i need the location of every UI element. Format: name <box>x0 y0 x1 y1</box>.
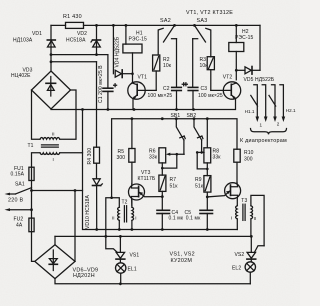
svg-text:РЭС-15: РЭС-15 <box>235 35 253 41</box>
svg-text:R2: R2 <box>163 57 170 63</box>
svg-text:100 мк×25: 100 мк×25 <box>198 93 223 99</box>
svg-text:T3: T3 <box>241 198 247 204</box>
transistor VT3 unijunction <box>129 170 163 206</box>
wire mains arrow 2 <box>5 208 33 211</box>
capacitor C3 <box>184 83 222 110</box>
svg-text:VS2: VS2 <box>235 252 245 258</box>
svg-text:SA3: SA3 <box>197 18 208 24</box>
diode VD5 <box>236 67 275 84</box>
svg-text:КУ202М: КУ202М <box>171 258 193 264</box>
svg-text:0.1 мк: 0.1 мк <box>169 216 184 222</box>
switch SA1 <box>5 181 32 195</box>
svg-text:Н1.1: Н1.1 <box>245 109 255 114</box>
svg-text:33к: 33к <box>213 154 222 160</box>
svg-text:Н2.1: Н2.1 <box>286 108 296 113</box>
brace to projectors <box>251 129 287 135</box>
resistor R1 <box>51 14 84 29</box>
svg-text:R10: R10 <box>244 150 254 156</box>
wire bridge2 right to SA1 line <box>74 191 76 262</box>
svg-text:VS1: VS1 <box>130 252 140 258</box>
resistor R10 <box>234 149 254 182</box>
thyristor VS2 <box>235 236 265 261</box>
node junction dots on top bus <box>95 24 238 27</box>
svg-text:VD1: VD1 <box>32 31 42 37</box>
svg-text:VT2: VT2 <box>223 74 233 80</box>
svg-text:VD10 НС518А: VD10 НС518А <box>85 195 91 229</box>
svg-text:4А: 4А <box>16 222 23 228</box>
lamp EL2 <box>232 262 256 284</box>
svg-text:КТ117Б: КТ117Б <box>138 176 156 182</box>
capacitor C1 <box>98 55 117 110</box>
svg-text:РЭС-15: РЭС-15 <box>129 36 147 42</box>
transformer T2 <box>106 196 137 236</box>
relay H1 <box>123 25 147 82</box>
svg-text:II: II <box>52 131 55 136</box>
svg-text:220 В: 220 В <box>8 197 23 203</box>
wire bus2 <box>55 235 253 238</box>
svg-text:VD4 НД522Б: VD4 НД522Б <box>115 36 121 67</box>
resistor R5 <box>117 119 136 184</box>
transistor VT4 unijunction <box>207 182 240 205</box>
relay H2 <box>229 25 254 79</box>
svg-text:51к: 51к <box>170 183 179 189</box>
svg-text:100 мк×25: 100 мк×25 <box>148 93 173 99</box>
fuse FU2 <box>14 191 35 232</box>
svg-text:II: II <box>112 215 115 220</box>
svg-text:10к: 10к <box>163 63 172 69</box>
svg-text:0.15А: 0.15А <box>11 172 25 178</box>
pushbutton SB2 <box>187 113 203 152</box>
svg-text:К диапроекторам: К диапроекторам <box>240 138 287 144</box>
thyristor VS1 <box>106 236 140 262</box>
transistor VT2 <box>211 74 241 109</box>
wire H2 right branch <box>259 25 261 70</box>
svg-text:33к: 33к <box>149 154 158 160</box>
svg-text:SB2: SB2 <box>187 113 197 119</box>
svg-text:300: 300 <box>117 155 126 161</box>
svg-text:Т1: Т1 <box>28 143 34 149</box>
svg-text:II: II <box>254 216 257 221</box>
svg-text:НД202Н: НД202Н <box>73 273 95 279</box>
svg-text:R4 300: R4 300 <box>87 148 93 165</box>
wire node row y57 <box>50 53 108 63</box>
wire line1 common rail <box>51 108 235 111</box>
svg-text:I: I <box>53 157 54 162</box>
transformer T3 <box>231 195 264 245</box>
zener VD10 <box>85 179 102 230</box>
svg-text:SB1: SB1 <box>171 113 181 119</box>
bridge rectifier VD6-VD9 <box>35 245 98 280</box>
svg-text:I: I <box>135 215 136 220</box>
svg-text:51к: 51к <box>195 183 204 189</box>
svg-text:НС518А: НС518А <box>66 38 86 44</box>
svg-text:T2: T2 <box>122 200 128 206</box>
transistor VT1 <box>128 74 156 109</box>
diode VD1 <box>13 31 55 47</box>
svg-text:1: 1 <box>260 122 263 127</box>
svg-text:R7: R7 <box>170 177 177 183</box>
svg-text:EL1: EL1 <box>128 266 137 272</box>
svg-text:VD2: VD2 <box>77 31 87 37</box>
svg-text:0.1 мк: 0.1 мк <box>186 216 201 222</box>
svg-text:SA2: SA2 <box>160 18 171 24</box>
resistor R8 <box>196 119 221 176</box>
contacts H2.1 <box>269 85 296 127</box>
transformer T1 <box>28 90 83 167</box>
svg-text:C3: C3 <box>201 86 208 92</box>
diode VD4 <box>113 25 133 77</box>
resistor R6 <box>149 148 184 175</box>
capacitor C2 <box>148 83 186 110</box>
resistor R7 <box>159 175 178 210</box>
svg-text:2: 2 <box>277 121 280 126</box>
switch SA3 <box>193 18 211 88</box>
wire VD1 branch <box>50 25 52 71</box>
wire bus1 <box>83 110 238 231</box>
svg-text:SA1: SA1 <box>15 181 25 187</box>
pushbutton SB1 <box>171 113 186 154</box>
lamp EL1 <box>116 263 137 284</box>
svg-text:R1 430: R1 430 <box>63 14 82 20</box>
wire line2 supply rail <box>112 117 237 197</box>
svg-text:R3: R3 <box>200 57 207 63</box>
wire bridge2 top to bus2 <box>54 236 56 244</box>
svg-text:R9: R9 <box>195 177 202 183</box>
label VS1 VS2 type <box>170 252 195 265</box>
wire SA1 to T1 branch <box>30 189 82 192</box>
svg-text:С1 200 мк×25 В: С1 200 мк×25 В <box>98 65 104 103</box>
svg-text:VS1, VS2: VS1, VS2 <box>170 252 195 258</box>
svg-text:300: 300 <box>244 156 253 162</box>
wire FU2 to bridge <box>32 232 35 262</box>
svg-text:EL2: EL2 <box>232 266 241 272</box>
svg-text:10к: 10к <box>200 63 209 69</box>
bridge rectifier VD3 <box>11 68 71 109</box>
resistor R9 <box>195 176 211 211</box>
svg-text:I: I <box>231 215 232 220</box>
capacitor C4 <box>157 210 184 230</box>
fuse FU1 <box>11 166 35 191</box>
resistor R4 <box>87 62 100 179</box>
svg-text:VT1, VT2 КТ312Е: VT1, VT2 КТ312Е <box>186 10 233 16</box>
zener VD2 <box>66 25 101 54</box>
wire top bus <box>84 24 261 26</box>
resistor R3 <box>200 57 215 91</box>
switch SA2 <box>158 18 176 88</box>
svg-text:VT1: VT1 <box>138 74 148 80</box>
resistor R2 <box>153 55 172 90</box>
svg-text:НЦ402Е: НЦ402Е <box>11 73 31 79</box>
capacitor C5 <box>185 210 213 230</box>
svg-text:C2: C2 <box>163 86 170 92</box>
svg-text:НД103А: НД103А <box>13 38 33 44</box>
contacts H1.1 <box>245 85 268 128</box>
svg-text:VD5 НД522Б: VD5 НД522Б <box>244 77 275 83</box>
wire bottom bus <box>55 279 250 286</box>
